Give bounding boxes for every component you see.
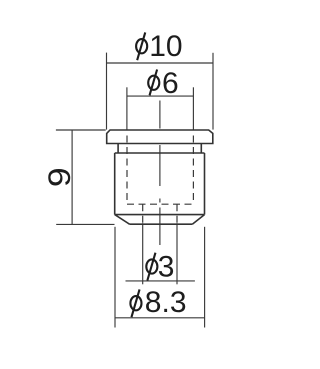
hidden hole phi3 right [176,204,178,223]
svg-text:10: 10 [149,30,182,63]
dim phi6 dimension line [127,95,193,97]
svg-text:6: 6 [162,67,179,100]
dim phi10 extension line right [212,53,214,130]
dim phi8.3 extension line left [114,227,116,328]
part bottom face [130,223,193,225]
centerline short dash [159,199,161,203]
part body right side [204,153,206,215]
hidden hole phi3 left [142,204,144,223]
hidden bore bottom [127,203,193,205]
dim phi6 extension line right [192,87,194,130]
dim phi3 extension line left [142,223,144,284]
part body top edge [115,152,205,154]
label phi3 [146,253,157,281]
dim phi10 dimension line [107,62,214,64]
dim phi10 extension line left [106,53,108,130]
centerline dash 3 [159,208,161,246]
svg-text:3: 3 [158,251,175,284]
dim phi6 extension line left [126,87,128,130]
part bottom chamfer left [115,215,130,225]
dim phi8.3 extension line right [204,227,206,328]
dim phi8.3 dimension line [115,317,205,319]
part bottom chamfer right [192,215,204,225]
dim 9 extension line bottom [56,223,114,225]
dim phi3 extension line right [176,223,178,284]
centerline dash 2 [159,145,161,186]
part neck right [200,144,202,154]
centerline dash 1 [159,101,161,129]
part flange outline [107,130,213,144]
part bottom chamfer edge [115,214,205,216]
hidden bore phi6 left [126,131,128,204]
hidden bore phi6 right [192,131,194,204]
svg-text:9: 9 [42,167,77,187]
part body left side [114,153,116,215]
dim 9 extension line top [56,129,106,131]
dim 9 dimension line [71,130,73,224]
part neck left [117,144,119,154]
dim phi3 dimension line [126,280,195,282]
svg-text:8.3: 8.3 [145,286,187,319]
label phi10 [136,32,147,60]
label phi6 [148,70,159,96]
label phi8.3 [130,289,141,317]
